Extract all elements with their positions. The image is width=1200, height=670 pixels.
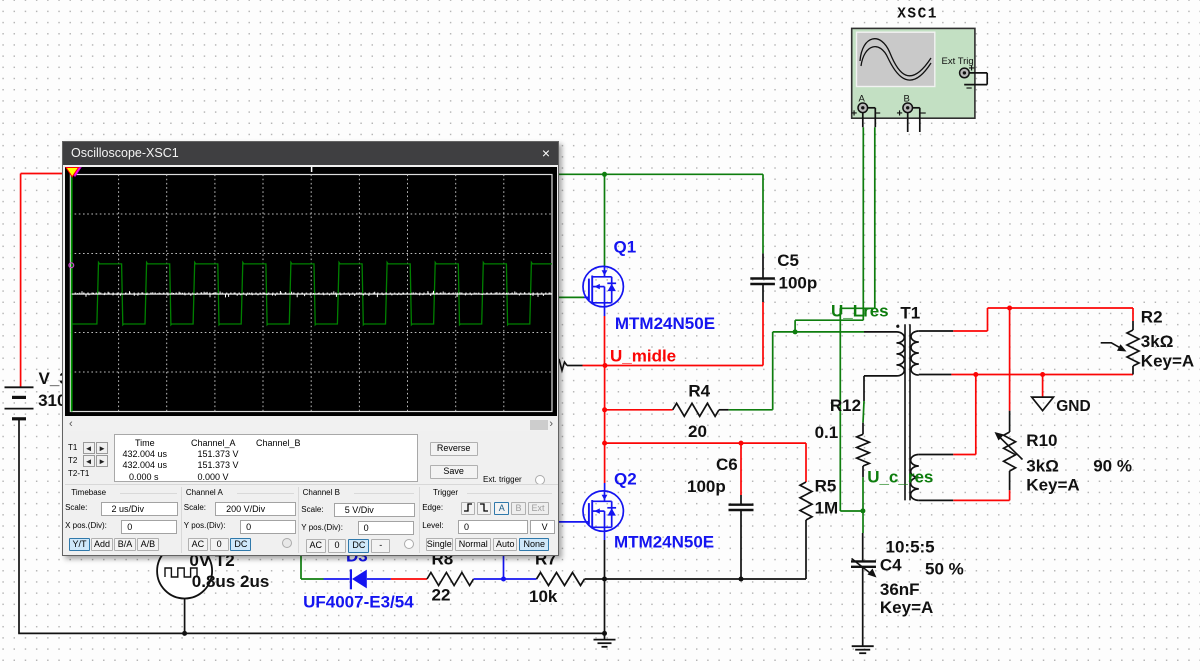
svg-text:B: B [904, 94, 910, 105]
svg-text:MTM24N50E: MTM24N50E [614, 533, 714, 552]
svg-text:50 %: 50 % [925, 560, 964, 579]
svg-text:R12: R12 [830, 396, 861, 415]
svg-text:36nF: 36nF [880, 580, 920, 599]
svg-text:+: + [851, 108, 857, 120]
svg-text:1M: 1M [815, 499, 839, 518]
svg-text:R5: R5 [815, 477, 837, 496]
svg-text:Key=A: Key=A [1026, 476, 1079, 495]
svg-text:10:5:5: 10:5:5 [886, 538, 935, 557]
svg-text:R10: R10 [1026, 431, 1057, 450]
svg-text:U_Lres: U_Lres [831, 302, 889, 321]
svg-text:10k: 10k [529, 587, 558, 606]
svg-text:0.1: 0.1 [815, 423, 839, 442]
svg-text:Key=A: Key=A [1141, 352, 1194, 371]
svg-text:100p: 100p [779, 274, 818, 293]
svg-text:U_c_res: U_c_res [867, 468, 933, 487]
svg-text:0.8us 2us: 0.8us 2us [192, 572, 269, 591]
svg-text:R2: R2 [1141, 308, 1163, 327]
svg-text:XSC1: XSC1 [897, 7, 938, 23]
svg-text:UF4007-E3/54: UF4007-E3/54 [303, 593, 414, 612]
svg-text:+: + [897, 108, 903, 120]
svg-text:A: A [859, 94, 866, 105]
svg-text:C5: C5 [777, 251, 799, 270]
svg-text:100p: 100p [687, 477, 726, 496]
svg-text:3kΩ: 3kΩ [1141, 332, 1174, 351]
svg-text:C6: C6 [716, 455, 738, 474]
svg-text:−: − [920, 108, 926, 120]
svg-text:20: 20 [688, 422, 707, 441]
svg-text:Q1: Q1 [614, 238, 637, 257]
svg-text:3kΩ: 3kΩ [1026, 457, 1059, 476]
svg-text:T1: T1 [900, 304, 920, 323]
svg-text:R4: R4 [688, 382, 710, 401]
svg-text:22: 22 [432, 586, 451, 605]
svg-text:C4: C4 [880, 556, 902, 575]
svg-text:Q2: Q2 [614, 470, 637, 489]
svg-text:MTM24N50E: MTM24N50E [615, 314, 715, 333]
svg-text:U_midle: U_midle [610, 347, 676, 366]
svg-text:Key=A: Key=A [880, 598, 933, 617]
svg-text:GND: GND [1056, 398, 1090, 415]
svg-text:90 %: 90 % [1093, 457, 1132, 476]
